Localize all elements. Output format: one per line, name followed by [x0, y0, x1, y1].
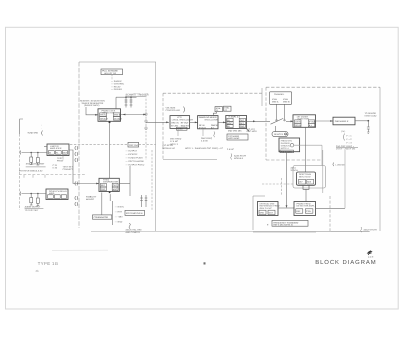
- svg-text:CTRL: CTRL: [306, 210, 312, 213]
- figure number note bottom left: [35, 261, 58, 273]
- svg-text:REF: REF: [296, 210, 301, 213]
- arrow into U1 left: [95, 114, 98, 116]
- dashed osc-out line with label box: [70, 142, 156, 147]
- svg-text:REF: REF: [101, 184, 106, 187]
- middle enclosure outline: [163, 88, 262, 160]
- wires osc to switch: [277, 104, 285, 119]
- svg-text:A2A4: A2A4: [177, 128, 183, 131]
- wire from label to U1: [86, 107, 98, 115]
- capacitor C1: [125, 97, 127, 107]
- svg-text:REF 5 MC (NOTE 2): REF 5 MC (NOTE 2): [273, 224, 292, 227]
- temperature label box: [125, 210, 145, 215]
- handwritten check mark: [368, 251, 374, 258]
- svg-text:(SWEEP RATE): (SWEEP RATE): [84, 104, 100, 107]
- svg-text:AMPLIFIER: AMPLIFIER: [50, 147, 62, 150]
- limiter upper input stub: [44, 146, 47, 148]
- svg-text:CONV A1A2: CONV A1A2: [365, 115, 378, 118]
- svg-text:RF IN: RF IN: [295, 124, 301, 127]
- svg-text:2.5 MC: 2.5 MC: [227, 148, 234, 151]
- svg-text:— HTR: — HTR: [115, 210, 123, 213]
- svg-text:2ND OSC MIX: 2ND OSC MIX: [228, 130, 242, 133]
- svg-text:RF OUT: RF OUT: [181, 122, 189, 125]
- svg-text:— PICKOFF: — PICKOFF: [126, 153, 139, 156]
- svg-text:MODULE: MODULE: [234, 157, 244, 160]
- divider chain block: [279, 138, 300, 152]
- note squiggle bottom of left enclosure: [126, 223, 143, 234]
- svg-text:GND: GND: [240, 125, 245, 128]
- trimmer caps right of comparator: [140, 195, 147, 207]
- svg-text:— OUTPUT: — OUTPUT: [126, 149, 138, 152]
- svg-text:— SWEEP: — SWEEP: [111, 80, 122, 83]
- svg-text:AGC: AGC: [113, 188, 118, 191]
- located note at middle bottom: [231, 154, 247, 160]
- phase detector block A2A3U1: [98, 109, 121, 122]
- svg-text:DIVIDER: DIVIDER: [281, 142, 290, 145]
- lower synth enclosure: [253, 196, 369, 232]
- sampling phase detector block: [198, 116, 219, 130]
- phase detector block K: [294, 202, 316, 216]
- svg-text:ASSY A2A2: ASSY A2A2: [228, 137, 240, 140]
- svg-text:— OVEN: — OVEN: [115, 205, 124, 208]
- p/o note under wire: [247, 128, 258, 133]
- signal list labels: [111, 80, 125, 91]
- connector column J1: [145, 95, 147, 160]
- svg-text:AMPL: AMPL: [49, 192, 56, 195]
- svg-text:FREQ SYN: FREQ SYN: [281, 139, 292, 142]
- connector column left of enclosure: [75, 146, 78, 206]
- svg-text:ADJUST: ADJUST: [86, 198, 95, 201]
- svg-text:GEN 2.5 MC: GEN 2.5 MC: [260, 207, 273, 210]
- squelch amplifier block: [46, 189, 68, 200]
- input feed wire left rail: [19, 134, 21, 210]
- wire into FL1: [20, 151, 47, 155]
- svg-text:A2A3 XTAL OSC: A2A3 XTAL OSC: [126, 228, 143, 231]
- svg-text:F = 1: F = 1: [347, 135, 353, 138]
- notes below sampler: [201, 129, 215, 143]
- wire if amp to switch: [246, 120, 270, 122]
- svg-text:— DRIVER: — DRIVER: [111, 88, 122, 91]
- top cap network above U1: [116, 96, 137, 108]
- svg-text:TYPE 1G: TYPE 1G: [38, 261, 59, 266]
- svg-text:C 32: C 32: [53, 166, 58, 169]
- svg-text:DETECTOR AMPL: DETECTOR AMPL: [297, 205, 316, 208]
- comparator output wire: [119, 183, 130, 185]
- schmitt trigger label: [126, 93, 149, 96]
- shunt network R-C at FL1 input: [30, 153, 40, 166]
- svg-text:SMP FREQ: SMP FREQ: [201, 137, 213, 140]
- svg-text:NOTE 1 - SAMPLING OSC FREQ =: NOTE 1 - SAMPLING OSC FREQ = FC: [185, 147, 224, 150]
- wire stub below adjust box: [111, 75, 113, 80]
- vco feedback wire from divider circle: [294, 145, 322, 165]
- crystal oscillator box: [270, 92, 292, 105]
- divider output down to J-K junction: [286, 152, 288, 208]
- wire vco to sampler: [190, 122, 198, 124]
- limiter bottom stub: [62, 156, 64, 160]
- label plate under vco: [177, 127, 188, 130]
- xtal boxes above sampler: [213, 106, 231, 115]
- right enclosure outline: [266, 87, 380, 231]
- comparator crystal block A2A3U2: [99, 178, 119, 191]
- A2A1 note: [291, 167, 299, 172]
- svg-text:— GND: — GND: [115, 220, 123, 223]
- node square under U1: [109, 121, 111, 123]
- svg-text:CHAIN N: CHAIN N: [281, 145, 290, 148]
- signal list right of limiter: [126, 149, 145, 166]
- 1st mixer label box: [227, 134, 248, 140]
- svg-text:GEN VCXO: GEN VCXO: [299, 175, 311, 178]
- svg-text:OSC MOD: OSC MOD: [247, 130, 258, 133]
- svg-text:CONTROLLED: CONTROLLED: [166, 109, 181, 112]
- svg-text:OUT: OUT: [63, 151, 68, 154]
- faint fold line bottom left: [52, 249, 108, 251]
- svg-text:— +28V: — +28V: [115, 215, 123, 218]
- svg-text:OSC OUT: OSC OUT: [129, 144, 139, 147]
- if amplifier block: [226, 116, 250, 133]
- audio output label: [25, 206, 44, 212]
- feedback rail: [344, 150, 346, 208]
- synthesizer outer outline: [293, 166, 326, 189]
- svg-text:IF OUT: IF OUT: [309, 121, 317, 124]
- partition line near feedback: [322, 150, 324, 193]
- oven control stub and list: [102, 193, 124, 226]
- small box under synthesizer: [303, 185, 309, 201]
- svg-text:OSC FREQ: OSC FREQ: [170, 137, 182, 140]
- svg-text:OUT: OUT: [269, 212, 274, 215]
- wire into comparator: [78, 183, 100, 185]
- svg-text:— TUNED PLATE: — TUNED PLATE: [126, 156, 144, 159]
- xtal filter label: [19, 163, 46, 173]
- svg-text:4b: 4b: [35, 269, 39, 273]
- main wire into VCO block: [146, 121, 169, 123]
- wire E to demod with junction: [355, 112, 377, 122]
- svg-text:SYNTH: SYNTH: [291, 169, 299, 172]
- svg-text:BLOCK DIAGRAM: BLOCK DIAGRAM: [315, 259, 376, 266]
- wire limiter to comparator: [69, 150, 78, 184]
- svg-text:— CONTROL: — CONTROL: [111, 83, 125, 86]
- svg-text:FR IN: FR IN: [100, 114, 106, 117]
- tune osc label group: [20, 119, 43, 136]
- svg-text:DIV: DIV: [299, 181, 303, 184]
- svg-text:AGC: AGC: [227, 122, 232, 125]
- U1 right pin boxes: [113, 113, 122, 120]
- label plate under divider: [280, 150, 294, 153]
- svg-text:POINT: POINT: [57, 160, 64, 163]
- enclosure A2A3 outline: [79, 62, 156, 231]
- adjust box (pull-in range adjust): [101, 69, 123, 75]
- notes below vco: [170, 130, 182, 146]
- termination network at junction: [367, 121, 370, 134]
- svg-text:CONNECT: CONNECT: [63, 168, 74, 171]
- svg-text:OUT: OUT: [240, 119, 245, 122]
- svg-text:OSC IN: OSC IN: [171, 122, 179, 125]
- svg-text:L 204 MC: L 204 MC: [336, 163, 346, 166]
- 1st mixer injection block D: [293, 115, 316, 128]
- wire U1 right with arrows: [121, 114, 147, 116]
- svg-text:NOTE 3: NOTE 3: [170, 143, 179, 146]
- svg-text:17.5 MC: 17.5 MC: [170, 140, 179, 143]
- svg-text:P/O RCVR MODULE A2: P/O RCVR MODULE A2: [19, 170, 43, 173]
- dashed partition above synthesizer: [262, 178, 294, 196]
- svg-text:TO TEST SET: TO TEST SET: [25, 209, 40, 212]
- wire K to feedback rail: [316, 207, 346, 209]
- svg-text:NOTE 4: NOTE 4: [281, 147, 290, 150]
- svg-text:OSC A: OSC A: [272, 101, 279, 104]
- svg-text:XTAL FILTER ASSY: XTAL FILTER ASSY: [26, 163, 45, 166]
- svg-text:C 31: C 31: [53, 164, 58, 167]
- svg-text:TUNE OSC: TUNE OSC: [27, 132, 38, 135]
- test point notes: [53, 157, 74, 171]
- frequency list under mixer E: [341, 130, 352, 145]
- vco block A2A1: [170, 116, 193, 129]
- svg-text:( N ): ( N ): [341, 130, 346, 133]
- svg-text:AND COMPTR: AND COMPTR: [126, 231, 141, 234]
- svg-text:A2A2 SYNTH: A2A2 SYNTH: [364, 229, 378, 232]
- svg-text:2.5 MC: 2.5 MC: [201, 140, 208, 143]
- limiter amplifier block FL1: [47, 144, 69, 156]
- vco label with bracket: [166, 107, 185, 113]
- svg-text:P/O TEMP OVEN: P/O TEMP OVEN: [126, 212, 143, 215]
- page number mark: [204, 262, 206, 264]
- svg-text:OSCILLATOR: OSCILLATOR: [205, 119, 219, 122]
- svg-text:— RELAY: — RELAY: [111, 85, 121, 88]
- freq standard label: [267, 220, 308, 226]
- A2A2 note at bottom right: [361, 227, 377, 232]
- svg-text:COMPARATOR: COMPARATOR: [94, 216, 109, 219]
- svg-text:VC OUT: VC OUT: [114, 117, 123, 120]
- inner rail near enclosure right edge: [151, 150, 153, 211]
- svg-text:OSC: OSC: [260, 212, 265, 215]
- U1 left pin boxes: [100, 113, 109, 120]
- svg-text:CHANNEL: CHANNEL: [274, 93, 285, 96]
- synthesizer module block: [297, 172, 316, 185]
- G right pin boxes: [112, 183, 118, 190]
- shunt network at squelch input: [30, 194, 40, 206]
- wire D to E: [316, 120, 334, 122]
- svg-text:OSC B: OSC B: [283, 101, 290, 104]
- wire sampler to if amp: [218, 122, 226, 124]
- stability label: [86, 196, 97, 201]
- svg-text:SCHMITT TRIGGER: SCHMITT TRIGGER: [126, 93, 149, 96]
- wire J to K: [278, 207, 294, 209]
- node under comparator: [109, 192, 111, 194]
- svg-text:2ND MIXER IF: 2ND MIXER IF: [335, 120, 349, 123]
- svg-text:DET: DET: [240, 122, 245, 125]
- chassis dashed line left: [19, 175, 85, 178]
- vertical feed right of comparator: [129, 166, 131, 196]
- search / acquisition sweep generator label: [80, 100, 105, 108]
- svg-text:RF OUT: RF OUT: [100, 117, 108, 120]
- svg-text:OUT: OUT: [113, 184, 118, 187]
- G left pin boxes: [100, 183, 106, 190]
- note row above middle enclosure bottom: [163, 144, 235, 151]
- chassis bottom line: [91, 230, 370, 232]
- svg-text:LO IN: LO IN: [295, 121, 301, 124]
- reference oscillator block J: [258, 202, 280, 216]
- svg-text:OSC IN: OSC IN: [114, 114, 122, 117]
- svg-text:F = 2: F = 2: [347, 138, 353, 141]
- svg-text:— OUTPUT PICKU: — OUTPUT PICKU: [126, 163, 145, 166]
- svg-text:OSC: OSC: [101, 188, 106, 191]
- svg-text:F = 3: F = 3: [347, 141, 353, 144]
- capacitor C2: [130, 97, 132, 107]
- svg-text:LOCAL OSCILLATOR: LOCAL OSCILLATOR: [172, 118, 194, 121]
- L-204 note: [333, 163, 345, 167]
- 2nd mixer block E: [333, 117, 355, 125]
- svg-text:— OSCTR ANODE: — OSCTR ANODE: [126, 160, 145, 163]
- remote control stadium label: [272, 126, 289, 136]
- svg-text:MIX: MIX: [307, 181, 311, 184]
- svg-text:AUDIO OUTPUT: AUDIO OUTPUT: [25, 206, 41, 209]
- wire U1 down to comparator G: [109, 123, 111, 178]
- oven label box: [93, 215, 112, 219]
- wire D down to synthesizer: [305, 127, 307, 172]
- channel switch S1: [271, 118, 294, 124]
- svg-text:ADJUST R6: ADJUST R6: [104, 72, 117, 75]
- wire into squelch block: [20, 192, 46, 196]
- 2nd osc freq note: [336, 145, 358, 151]
- svg-text:MODULE A2: MODULE A2: [163, 147, 176, 150]
